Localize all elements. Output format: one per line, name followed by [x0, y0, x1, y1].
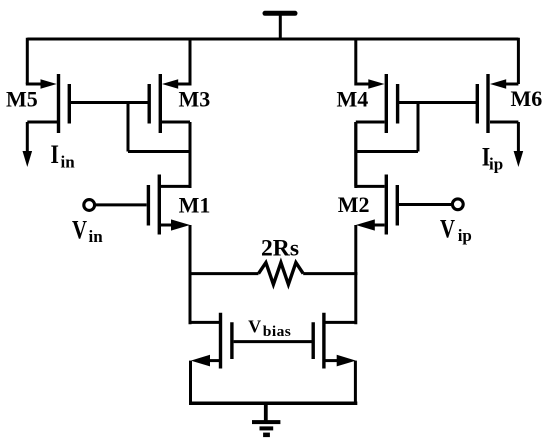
svg-text:M6: M6 — [511, 86, 543, 111]
svg-text:2Rs: 2Rs — [261, 236, 299, 262]
svg-text:V: V — [440, 214, 455, 243]
svg-text:M3: M3 — [179, 87, 211, 112]
svg-text:in: in — [89, 227, 104, 246]
svg-text:V: V — [248, 316, 261, 336]
svg-text:ip: ip — [489, 155, 503, 174]
svg-text:M2: M2 — [338, 192, 370, 217]
svg-text:bias: bias — [263, 324, 292, 340]
svg-text:M4: M4 — [337, 87, 369, 112]
svg-text:V: V — [72, 216, 87, 245]
svg-text:M5: M5 — [6, 86, 38, 111]
svg-text:ip: ip — [458, 226, 472, 245]
svg-text:I: I — [51, 140, 59, 169]
svg-text:in: in — [61, 153, 76, 172]
svg-text:M1: M1 — [179, 192, 211, 217]
